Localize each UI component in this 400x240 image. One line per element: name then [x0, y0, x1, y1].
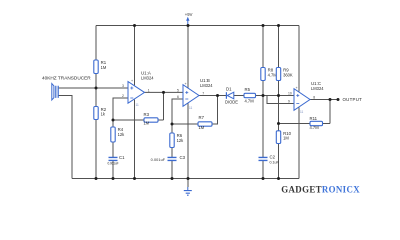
svg-text:6: 6 [177, 95, 179, 99]
wire U1:B output through D1 R5 to pin10 [199, 95, 294, 97]
svg-text:12k: 12k [118, 132, 126, 137]
ground symbol [187, 187, 189, 190]
svg-text:C2: C2 [270, 154, 276, 159]
junction transducer / R1 / R2 / U1:A pin3 [95, 87, 98, 90]
transducer X1 40kHz [52, 84, 54, 100]
wire R7 feedback bottom [172, 96, 218, 125]
junction R5 / R8 / C2 node [262, 94, 265, 97]
junction U1:A output / R3 feedback [162, 91, 165, 94]
svg-text:9: 9 [288, 99, 290, 103]
svg-text:+9V: +9V [185, 12, 193, 17]
wire C1 bottom lead [112, 160, 114, 178]
junction ground rail / C1 [112, 177, 115, 180]
svg-text:11: 11 [136, 103, 140, 107]
svg-text:D1: D1 [226, 86, 232, 91]
capacitor C2 [259, 157, 268, 160]
wire U1:B pin11 to ground rail [187, 103, 189, 179]
junction ground rail / R2 [95, 177, 98, 180]
junction ground rail / U1:A pin11 [133, 177, 136, 180]
svg-text:C1: C1 [119, 155, 125, 160]
node OUTPUT [337, 98, 340, 101]
svg-text:1M: 1M [101, 65, 107, 70]
resistor R11 [310, 121, 323, 125]
junction ground rail / C2 [262, 177, 265, 180]
junction ground rail / C3 [171, 177, 174, 180]
svg-text:1M: 1M [283, 136, 289, 141]
wire U1:C pin11 to ground rail [298, 108, 300, 179]
power +9V terminal [187, 21, 189, 26]
capacitor C3 [168, 157, 177, 160]
wire U1:A pin2 to R4 node [113, 98, 128, 157]
junction +9V rail / U1:B V+ [187, 24, 190, 27]
svg-text:R11: R11 [310, 116, 318, 121]
svg-text:4.7M: 4.7M [310, 125, 320, 130]
svg-text:5: 5 [177, 88, 179, 92]
junction +9V rail / U1:A V+ [133, 24, 136, 27]
svg-text:2: 2 [122, 94, 124, 98]
wire jog to U1:C pin9 [267, 96, 294, 104]
junction R10 / R11 [277, 122, 280, 125]
resistor R4 [111, 127, 115, 142]
wire U1:A pin11 to ground rail [134, 100, 136, 179]
op-amp U1:A [128, 82, 145, 104]
svg-text:+: + [185, 82, 187, 86]
svg-text:DIODE: DIODE [225, 99, 238, 104]
wire R8 line [262, 26, 264, 96]
wire R4 node to R3 [113, 119, 164, 121]
resistor R6 [170, 133, 174, 148]
resistor R10 [276, 131, 280, 144]
wire R1-R2 vertical line [95, 26, 97, 179]
svg-text:0.001uF: 0.001uF [151, 158, 166, 162]
junction U1:B output / R7 feedback [216, 94, 219, 97]
svg-text:0.001uF: 0.001uF [108, 161, 119, 165]
resistor R7 [198, 122, 212, 126]
wire transducer bottom to ground rail [58, 96, 72, 179]
svg-text:+: + [296, 86, 298, 90]
svg-text:4.7M: 4.7M [245, 98, 255, 103]
svg-text:0.1uF: 0.1uF [270, 161, 280, 165]
junction U1:C output / R11 feedback [329, 98, 332, 101]
junction U1:A pin2 / R4 / R3 [112, 119, 115, 122]
wire C3 bottom lead [171, 160, 173, 178]
svg-text:11: 11 [300, 110, 304, 114]
svg-text:OUTPUT: OUTPUT [343, 97, 363, 102]
junction +9V rail / R9 [277, 24, 280, 27]
resistor R2 [94, 107, 98, 120]
diode D1 [227, 92, 234, 99]
svg-text:1: 1 [148, 89, 150, 93]
svg-text:7: 7 [202, 92, 204, 96]
svg-text:40KHZ TRANSDUCER: 40KHZ TRANSDUCER [42, 75, 91, 80]
svg-text:C3: C3 [180, 155, 186, 160]
svg-text:R3: R3 [144, 112, 150, 117]
wire C2 bottom lead [262, 160, 264, 178]
wire U1:B V+ from rail [187, 26, 189, 89]
svg-text:11: 11 [189, 106, 193, 110]
svg-text:3: 3 [122, 84, 124, 88]
svg-text:1M: 1M [199, 125, 205, 130]
svg-text:LM324: LM324 [311, 86, 324, 91]
resistor R1 [94, 60, 98, 74]
wire R3 right to U1:A output [163, 92, 165, 120]
svg-text:10: 10 [288, 91, 292, 95]
wire U1:A V+ from rail [134, 26, 136, 86]
wire C2 line top [262, 96, 264, 158]
svg-text:8: 8 [313, 96, 315, 100]
svg-text:12k: 12k [177, 138, 185, 143]
op-amp U1:C [294, 89, 310, 111]
resistor R5 [244, 93, 256, 97]
wire top +9V rail [96, 25, 299, 27]
junction ground rail / U1:B pin11 / ground symbol [187, 177, 190, 180]
svg-text:R7: R7 [199, 115, 205, 120]
svg-text:360K: 360K [283, 72, 293, 77]
wire U1:C output [310, 99, 338, 101]
wire R11 right to U1:C output [329, 100, 331, 124]
svg-text:1M: 1M [144, 121, 150, 126]
wire U1:A output to U1:B pin5 [145, 91, 184, 93]
wire U1:B pin6 jog down [172, 99, 183, 157]
capacitor C1 [109, 157, 118, 160]
resistor R3 [144, 118, 158, 122]
wire ground stub below rail [187, 179, 189, 188]
wire U1:C V+ from top rail [298, 26, 300, 92]
wire transducer top to U1:A pin3 [58, 87, 128, 89]
junction +9V rail / R8 [262, 24, 265, 27]
op-amp U1:B [183, 85, 199, 107]
svg-text:LM324: LM324 [200, 83, 213, 88]
svg-text:+: + [131, 79, 133, 83]
svg-text:GADGETRONICX: GADGETRONICX [281, 185, 360, 195]
svg-text:LM324: LM324 [141, 76, 154, 81]
wire bottom ground rail [72, 178, 299, 180]
resistor R8 [261, 68, 265, 81]
svg-text:R5: R5 [245, 87, 251, 92]
wire R9-R10 line [278, 26, 280, 179]
junction ground rail / R10 [277, 177, 280, 180]
wire R11 horizontal [279, 123, 331, 125]
junction U1:B pin6 / R6 / R7 [171, 123, 174, 126]
junction R9 / R10 / U1:C pin10 node [277, 94, 280, 97]
resistor R9 [276, 68, 280, 81]
